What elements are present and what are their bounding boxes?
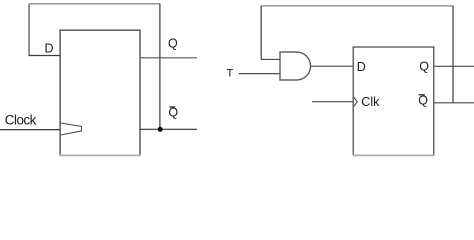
flip-flop U1 top edge: [60, 29, 141, 31]
svg-text:Q: Q: [168, 36, 178, 50]
wire feedback right vertical: [452, 6, 454, 103]
wire feedback left vertical: [28, 4, 30, 56]
wire Q output: [140, 57, 197, 59]
svg-text:Clock: Clock: [5, 112, 37, 127]
svg-text:Q: Q: [419, 59, 429, 73]
wire Clock input: [0, 129, 60, 131]
wire AND top input: [261, 58, 280, 60]
wire feedback top horizontal: [29, 3, 161, 5]
wire Qbar output: [140, 128, 197, 130]
flip-flop U3 top edge: [353, 46, 435, 48]
wire Clk input: [312, 101, 353, 103]
svg-text:Clk: Clk: [361, 95, 380, 109]
svg-text:D: D: [357, 60, 366, 74]
wire T input: [239, 73, 281, 75]
overbar of U3 Qbar label: [419, 94, 426, 96]
clock wedge symbol on U1: [61, 123, 82, 135]
flip-flop U1 right edge: [139, 30, 141, 155]
clock triangle on U3: [354, 97, 358, 107]
svg-text:T: T: [227, 68, 234, 80]
wire Q output: [434, 65, 474, 67]
flip-flop U1 left edge: [59, 30, 61, 155]
svg-text:D: D: [45, 42, 54, 56]
svg-text:Q: Q: [418, 94, 428, 108]
flip-flop U1 bottom edge: [60, 154, 141, 156]
junction node on Qbar: [158, 127, 163, 132]
wire AND output to D: [311, 65, 354, 67]
wire feedback left vertical: [260, 6, 262, 60]
overbar of Qbar label: [169, 106, 175, 108]
wire feedback top horizontal: [261, 5, 454, 7]
flip-flop U3 left edge: [352, 47, 354, 156]
flip-flop U3 right edge: [433, 47, 435, 156]
flip-flop U3 bottom edge: [353, 154, 435, 156]
wire D input: [29, 55, 61, 57]
AND gate U2: [280, 52, 311, 80]
wire feedback right vertical: [159, 4, 161, 129]
wire Qbar output: [434, 102, 474, 104]
